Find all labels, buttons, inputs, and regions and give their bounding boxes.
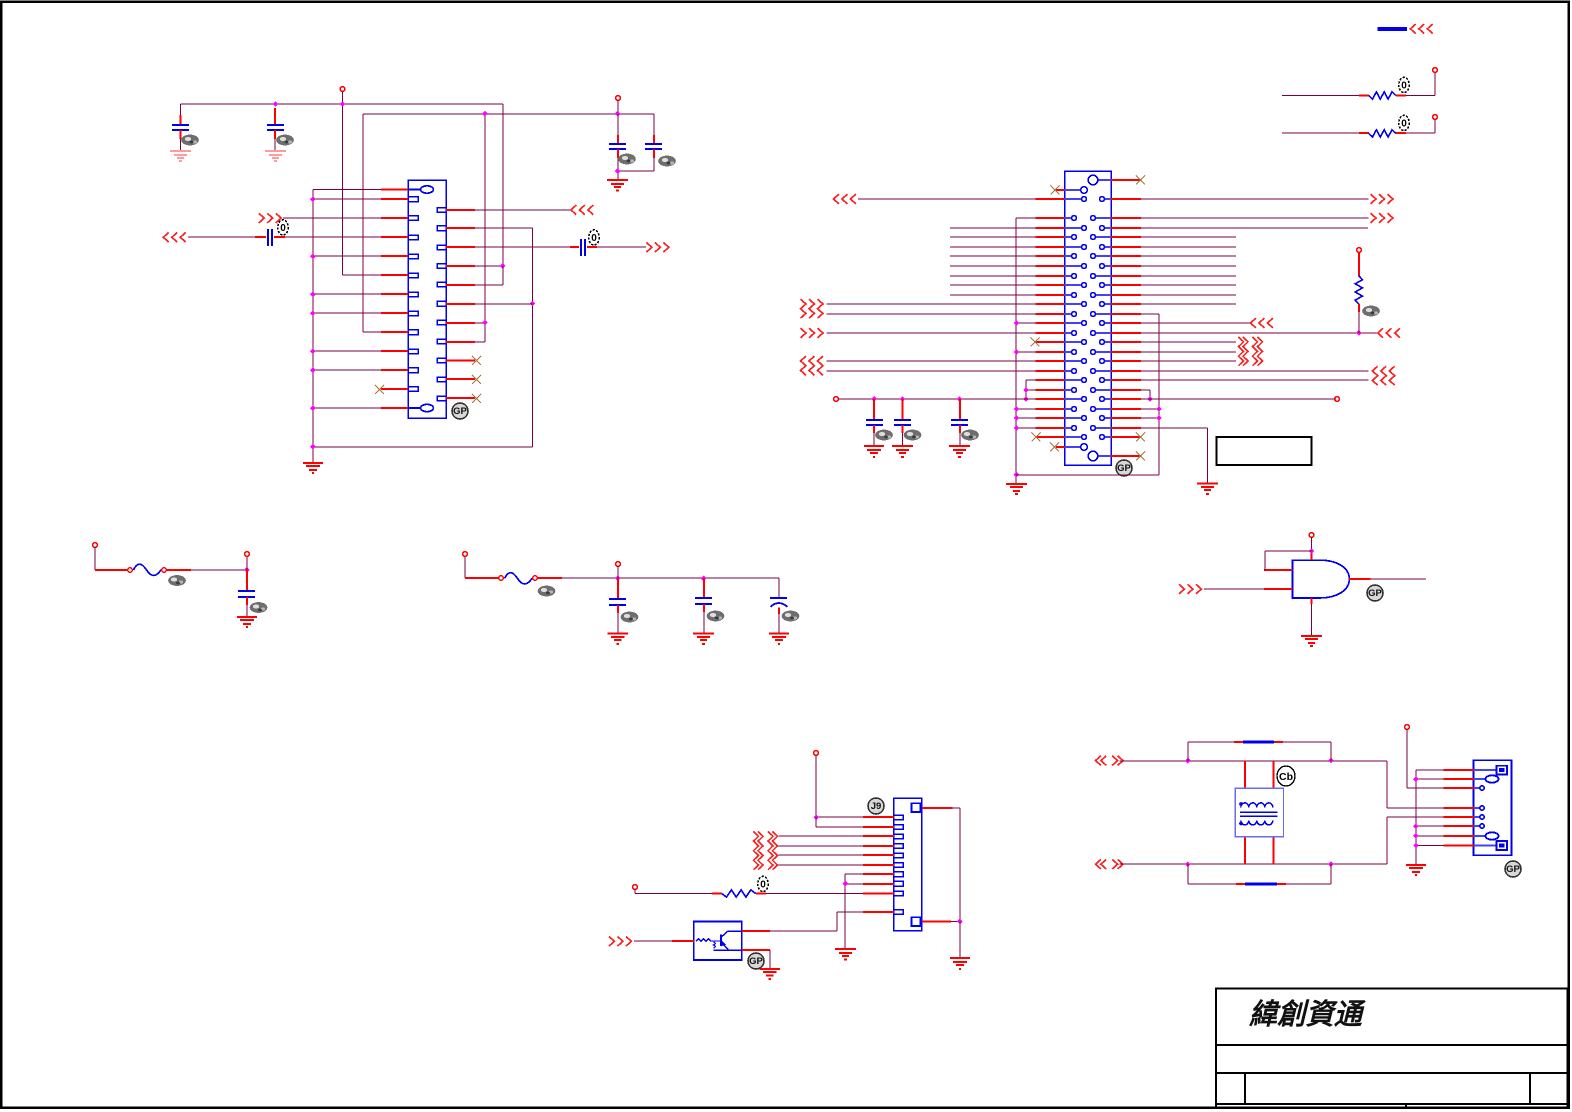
pin jumper JP1 left — [1234, 741, 1243, 743]
junction bus row 26 — [1014, 425, 1020, 431]
junction line B bypass right — [1328, 861, 1334, 867]
pin stub J1 right 19 — [446, 322, 475, 324]
connector J2 pin row 8 right — [1095, 255, 1111, 257]
connector J2 pin row 14 left — [1065, 313, 1072, 315]
pin stub J1 left 7 — [381, 293, 408, 295]
pin J3 pad bottom stub — [922, 921, 951, 923]
wire C6 to off-page — [597, 246, 646, 248]
label U1 designator — [1367, 585, 1383, 601]
ground J3 pads — [950, 958, 970, 969]
wire R3 to row16 — [1358, 312, 1360, 333]
pin stub J2 right row 7 — [1111, 246, 1141, 248]
junction row22 vertical — [1023, 387, 1029, 393]
pin T1 bottom left — [1244, 837, 1246, 864]
wire bypass bottom left — [1188, 864, 1236, 884]
wire J2 row 11 left (net stub) — [950, 284, 1036, 286]
label R2 value — [1399, 115, 1409, 130]
wire R2 to terminal — [1406, 119, 1435, 133]
node terminal R3 — [1357, 248, 1362, 253]
pin C12 top — [902, 399, 904, 420]
pin stub J2 pin2 (short) — [1056, 189, 1065, 191]
connector J3 mount pad bottom — [912, 917, 921, 926]
pin stub J2 left row 9 — [1036, 265, 1065, 267]
node terminal J4 pin3 — [1405, 725, 1410, 730]
connector J2 pin 59 — [1065, 446, 1081, 448]
connector J2 pin row 22 left — [1065, 389, 1072, 391]
connector J3 pin 5 — [894, 853, 903, 858]
annotation box — [1217, 437, 1312, 465]
connector J1 left pin 7 — [408, 292, 418, 297]
pin stub J2 right row 13 — [1111, 303, 1141, 305]
resistor R4 — [722, 890, 756, 897]
svg-text:0: 0 — [1401, 119, 1407, 130]
connector J2 pin row 17 left — [1065, 341, 1082, 343]
connector J1 left pin 3 — [408, 216, 418, 221]
pin FB1 right — [167, 569, 192, 571]
resistor R1 — [1369, 92, 1396, 99]
pin stub J2 left row 24 — [1036, 408, 1065, 410]
pin R2 left — [1359, 132, 1369, 134]
capacitor C7 — [238, 591, 255, 597]
pin stub J2 right row 12 — [1111, 294, 1141, 296]
pin stub J2 left row 15 — [1036, 322, 1065, 324]
wire J2 row21 right — [1141, 379, 1369, 381]
label R4 value — [758, 876, 768, 891]
off-page connector J2 row16 left — [801, 328, 823, 338]
wire J2 row 25 left to bus — [1016, 417, 1036, 419]
connector J1 left pin 2 — [408, 197, 418, 202]
pin stub J1 left 6 — [381, 274, 408, 276]
node VCC terminal left — [834, 397, 839, 402]
pin R3 top — [1358, 253, 1360, 276]
off-page connector IN (J1 L3) — [259, 213, 281, 223]
svg-text:GP: GP — [1117, 463, 1131, 474]
off-page connector bus — [1410, 24, 1432, 34]
wire J2 row2 left — [858, 198, 1036, 200]
junction J4 bus pin7 — [1413, 833, 1419, 839]
wire C8 to ground — [617, 613, 619, 634]
capacitor C11 — [866, 420, 883, 425]
pin U2 input — [672, 940, 694, 942]
pin R4 right — [756, 893, 766, 895]
connector J2 pin row 17 right — [1105, 341, 1111, 343]
connector J2 pin 2 — [1065, 189, 1081, 191]
wire J2 row 8 right (net stub) — [1141, 255, 1236, 257]
pin stub J1 left 9 — [381, 331, 408, 333]
connector J3 pin 7 — [894, 872, 903, 877]
connector J4 body — [1474, 760, 1512, 855]
connector J2 pin row 9 right — [1105, 265, 1111, 267]
node terminal R4 — [633, 885, 638, 890]
wire J2 row18 left to bus — [1016, 351, 1036, 353]
wire J2 row16 left — [827, 332, 1036, 334]
off-page connector OUT (J1 R1) — [571, 205, 593, 215]
wire J2 row20 left — [827, 370, 1036, 372]
wire J1 L8 to bus — [313, 312, 381, 314]
wire C4 bottom to junction — [618, 158, 654, 180]
wire J1 R4 to rail A vertical — [475, 265, 503, 267]
ferrite bead FB1 — [128, 568, 133, 573]
wire J2 row14 left — [827, 313, 1036, 315]
off-page connector audio-in left — [163, 233, 185, 243]
connector J2 pin row 8 left — [1065, 255, 1072, 257]
wire J2 row 24 right — [1141, 408, 1159, 410]
transistor U2 optocoupler body — [694, 921, 742, 959]
connector J2 pin row 25 left — [1065, 417, 1082, 419]
pin stub J4 pin 4 — [1444, 807, 1475, 809]
wire J1 L5 to bus — [313, 255, 381, 257]
connector J2 pin row 26 right — [1095, 427, 1111, 429]
junction J4 bus pin2 — [1413, 776, 1419, 782]
wire U1 gnd — [1311, 604, 1313, 636]
no-connect J2 row17 left — [1031, 338, 1040, 347]
svg-text:0: 0 — [1401, 81, 1407, 92]
wire VCC rail A — [181, 104, 504, 266]
wire J2 row 18 right (zigzag net) — [1141, 351, 1236, 353]
pin C2 top — [274, 108, 276, 125]
label R3 value — [1362, 306, 1380, 317]
pin C11 bottom — [873, 425, 875, 433]
bus entry segment — [1378, 27, 1408, 31]
pin C9 top — [703, 578, 705, 598]
junction C7 node — [244, 567, 250, 573]
ground U1 — [1301, 636, 1322, 646]
ground C2 — [265, 151, 286, 161]
pin stub J2 right row 19 — [1111, 360, 1141, 362]
pin R1 right — [1396, 95, 1406, 97]
wire off-page to C5 — [188, 236, 255, 238]
junction rail A / C2 — [273, 101, 279, 107]
wire J1 pin24 to bus — [313, 407, 381, 409]
wire J1 R6 to vertical — [475, 303, 533, 305]
pin stub J2 right row 0 — [1111, 179, 1141, 181]
ground C1 — [170, 151, 191, 161]
pin stub J1 right 20 — [446, 341, 475, 343]
wire J4 pin3 to terminal — [1407, 729, 1444, 788]
pin C1 bottom — [180, 130, 182, 139]
wire J1 R3 to C6 — [475, 246, 570, 248]
wire J3 pin7 — [845, 874, 863, 884]
connector J1 body — [408, 180, 446, 418]
connector J2 pin row 23 left — [1065, 398, 1082, 400]
connector J2 pin row 11 left — [1065, 284, 1082, 286]
wire vertical from rail A to J1 pin L5 — [343, 104, 382, 275]
connector J2 pin row 18 left — [1065, 351, 1072, 353]
junction line A bypass right — [1328, 758, 1334, 764]
no-connect J2 pin60 right — [1136, 452, 1145, 461]
label C10 value — [782, 611, 800, 622]
wire C5 to J1 L4 — [285, 236, 381, 238]
pin stub J2 left row 18 — [1036, 351, 1065, 353]
connector J1 left pin 4 — [408, 235, 418, 240]
capacitor C6 series — [581, 239, 585, 256]
pin stub J2 right row 10 — [1111, 275, 1141, 277]
connector J2 pin row 21 right — [1105, 379, 1111, 381]
pin C10 top — [778, 597, 780, 599]
pin C13 top — [959, 399, 961, 420]
pin C5 left — [255, 236, 266, 238]
pin stub J2 right row 2 — [1111, 198, 1141, 200]
wire C7 to ground — [246, 605, 248, 617]
pin stub J1 left 12 — [381, 388, 408, 390]
no-connect J2 row27 right — [1136, 433, 1145, 442]
connector J1 left pin 6 — [408, 273, 418, 278]
ground C9 — [693, 634, 714, 645]
connector J1 right pin 19 — [437, 320, 446, 325]
connector J2 pin row 27 right — [1105, 436, 1111, 438]
connector J2 pin row 22 right — [1095, 389, 1111, 391]
connector J4 pin 6 — [1474, 825, 1480, 827]
pin stub J3 pin 4 — [863, 845, 894, 847]
label C12 value — [904, 430, 922, 441]
connector J2 pin row 13 left — [1065, 303, 1082, 305]
pin U2 emitter — [742, 949, 770, 951]
connector J2 pin row 4 right — [1095, 217, 1111, 219]
capacitor C3 — [609, 144, 626, 149]
wire J1 R7 junction seg — [475, 322, 485, 324]
wire bypass top left — [1188, 742, 1234, 761]
pin R2 right — [1396, 132, 1406, 134]
capacitor C5 series — [268, 229, 272, 246]
wire R1 left — [1282, 95, 1359, 97]
wire J2 row 9 left (net stub) — [950, 265, 1036, 267]
pin T1 top left — [1244, 761, 1246, 788]
junction line B bypass left — [1185, 861, 1191, 867]
junction C3/C4 ground node — [615, 168, 621, 174]
capacitor C12 — [894, 420, 911, 425]
connector J2 pin row 15 left — [1065, 322, 1082, 324]
label U2 designator — [748, 953, 764, 969]
ground U2 — [760, 969, 781, 979]
pin T1 bottom right — [1273, 837, 1275, 864]
inductor JP1 jumper top — [1243, 740, 1274, 743]
node VCC terminal right — [1335, 397, 1340, 402]
wire J4 pin6 to bus — [1416, 825, 1444, 827]
pin stub J2 left row 26 — [1036, 427, 1065, 429]
no-connect J1 R11 — [472, 394, 481, 403]
connector J1 right pin 22 — [437, 377, 446, 382]
wire J4 pin1 to bus — [1416, 770, 1444, 779]
pin stub J1 right 21 — [446, 360, 475, 362]
connector J2 pin row 19 left — [1065, 360, 1082, 362]
wire J1 L11 to bus — [313, 369, 381, 371]
pin C2 bottom — [274, 130, 276, 139]
connector J1 right pin 17 — [437, 282, 446, 287]
wire R2 left — [1282, 132, 1359, 134]
node terminal R1 — [1433, 68, 1438, 73]
pin C4 top — [653, 135, 655, 144]
wire J2 row16 right — [1141, 332, 1377, 334]
wire U1 input B — [1204, 588, 1264, 590]
wire J1 L7 to bus — [313, 293, 381, 295]
ground J1 bus — [303, 463, 323, 473]
connector J2 pin row 5 left — [1065, 227, 1082, 229]
junction rail C12 — [900, 396, 906, 402]
connector J2 pin row 6 left — [1065, 236, 1072, 238]
junction gnd vertical row 24 — [1156, 406, 1162, 412]
pin stub J1 right 23 — [446, 397, 475, 399]
pin stub J1 left 4 — [381, 236, 408, 238]
wire J2 row13 left — [827, 303, 1036, 305]
svg-text:0: 0 — [591, 233, 597, 244]
pin stub J2 left row 5 — [1036, 227, 1065, 229]
pin C5 right — [274, 236, 285, 238]
connector J2 pin row 7 left — [1065, 246, 1082, 248]
pin stub J3 pin 9 — [863, 893, 894, 895]
ground C8 — [608, 634, 629, 645]
svg-text:0: 0 — [280, 223, 286, 234]
junction J4 bus pin6 — [1413, 824, 1419, 830]
pin stub J2 right row 9 — [1111, 265, 1141, 267]
wire J3 pin 6 to off-page — [779, 864, 864, 866]
svg-text:GP: GP — [1368, 588, 1382, 599]
pin U1 input A — [1264, 569, 1293, 571]
wire C3 bottom to junction — [617, 158, 619, 171]
pin stub J3 pin 10 — [863, 911, 894, 913]
connector J2 pin row 23 right — [1105, 398, 1111, 400]
pin FB2 right — [538, 577, 562, 579]
wire J2 row 9 right (net stub) — [1141, 265, 1236, 267]
pin stub J2 left row 11 — [1036, 284, 1065, 286]
wire vertical rail B to J1 pin R7 — [475, 114, 485, 342]
pin U1 output — [1349, 578, 1371, 580]
pin stub J3 pin 8 — [863, 883, 894, 885]
wire J4 pin8 to bus — [1416, 845, 1444, 847]
connector J4 pin 4 — [1474, 807, 1480, 809]
wire J2 row 10 left (net stub) — [950, 275, 1036, 277]
node terminal FB1 out — [245, 552, 250, 557]
pin U1 input B — [1264, 588, 1293, 590]
connector J1 right pin 13 — [437, 208, 446, 213]
pin C8 top — [617, 578, 619, 599]
pin stub J2 left row 12 — [1036, 294, 1065, 296]
pin stub J2 left row 8 — [1036, 255, 1065, 257]
pin stub J2 left row 10 — [1036, 275, 1065, 277]
svg-text:J9: J9 — [871, 801, 882, 812]
pin C7 bottom — [246, 597, 248, 605]
pin stub J2 right row 16 — [1111, 332, 1141, 334]
capacitor C8 — [609, 599, 626, 605]
resistor R2 — [1369, 130, 1396, 137]
wire J3 pin 5 to off-page — [779, 854, 864, 856]
pin stub J2 left row 20 — [1036, 370, 1065, 372]
node terminal FB2 in — [463, 552, 468, 557]
pin C7 top — [246, 570, 248, 591]
ground C7 — [237, 617, 257, 627]
svg-text:緯創資通: 緯創資通 — [1248, 999, 1366, 1031]
connector J2 pin row 4 left — [1065, 217, 1072, 219]
wire C1 top lead — [180, 104, 182, 115]
connector J1 pin 24 oval — [408, 407, 421, 409]
ferrite bead FB2 — [499, 576, 504, 581]
wire J2 row19 left — [827, 360, 1036, 362]
pin stub J1 right 22 — [446, 378, 475, 380]
wire FB1 in lead — [94, 547, 96, 570]
label C5 value — [278, 220, 288, 235]
junction bus bottom — [1014, 472, 1020, 478]
wire J3 pad top to pad bottom — [953, 808, 961, 922]
label J2 designator — [1116, 460, 1132, 476]
label C11 value — [875, 430, 893, 441]
wire U1 vcc terminal — [1311, 537, 1313, 551]
junction row22/23 right — [1147, 396, 1153, 402]
pin stub J2 right row 22 — [1111, 389, 1141, 391]
ground C12 — [892, 446, 913, 457]
wire J3 pin 3 to off-page — [779, 835, 864, 837]
pin jumper JP1 right — [1274, 741, 1283, 743]
connector J4 pin 5 — [1474, 816, 1480, 818]
wire terminal lead — [342, 92, 344, 104]
wire J2 row2 right — [1141, 198, 1369, 200]
label FB1 value — [168, 575, 186, 586]
no-connect J1 L12 — [375, 385, 384, 394]
junction rail C9 — [701, 576, 707, 582]
wire line B — [1120, 817, 1444, 864]
label R1 value — [1399, 77, 1409, 92]
connector J2 pin row 16 right — [1095, 332, 1111, 334]
capacitor C4 — [645, 144, 662, 149]
wire J4 pin7 to bus — [1416, 835, 1444, 837]
wire J2 row 19 right (zigzag net) — [1141, 360, 1236, 362]
pin stub J4 pin 2 — [1444, 778, 1475, 780]
pin C3 bottom — [617, 149, 619, 158]
node VCC terminal 2 — [616, 96, 621, 101]
pin stub J1 pin24 — [381, 407, 408, 409]
pin stub J2 right row 6 — [1111, 236, 1141, 238]
connector J4 pin 3 — [1474, 787, 1480, 789]
connector J2 pin row 6 right — [1095, 236, 1111, 238]
wire bypass bottom right — [1286, 864, 1331, 884]
connector J1 right pin 16 — [437, 264, 446, 269]
label J3 designator — [868, 798, 884, 814]
pin stub J2 left row 25 — [1036, 417, 1065, 419]
ground C11 — [864, 446, 884, 457]
wire J2 row 5 left (net stub) — [950, 227, 1036, 229]
pin C4 bottom — [653, 149, 655, 158]
connector J3 pin 8 — [894, 881, 903, 886]
junction bus row15 — [1014, 320, 1020, 326]
capacitor C10 polarized — [770, 598, 787, 607]
wire VCC rail mid — [838, 398, 1036, 400]
connector J2 pin row 19 right — [1105, 360, 1111, 362]
svg-text:GP: GP — [749, 956, 763, 967]
node terminal J3 vcc — [814, 751, 819, 756]
label FB2 value — [538, 586, 556, 597]
junction bus row 25 — [1014, 415, 1020, 421]
connector J2 pin row 3 left — [1065, 198, 1082, 200]
off-page connector J2 row2 right — [1371, 194, 1393, 204]
pin stub J2 left row 22 — [1036, 389, 1065, 391]
connector J3 pin 6 — [894, 863, 903, 868]
label C9 value — [707, 611, 725, 622]
wire C11 to ground — [873, 433, 875, 446]
off-page connector U1 input B — [1179, 584, 1201, 594]
pin C9 bottom — [703, 604, 705, 612]
junction R3 / row16 — [1356, 330, 1362, 336]
op-amp U1 AND gate body — [1293, 560, 1350, 598]
junction bus L7 — [310, 292, 316, 298]
wire C4 top lead — [653, 114, 655, 135]
connector J2 pin row 20 right — [1095, 370, 1111, 372]
wire J2 row15 right — [1141, 322, 1250, 324]
junction R2 vertical / R6 — [530, 301, 536, 307]
connector J2 pin row 15 right — [1105, 322, 1111, 324]
svg-text:Cb: Cb — [1279, 771, 1293, 783]
connector J2 pin row 18 right — [1095, 351, 1111, 353]
label J1 designator — [452, 403, 468, 419]
wire J1 L10 to bus — [313, 350, 381, 352]
pin stub J4 pin 7 — [1444, 835, 1475, 837]
